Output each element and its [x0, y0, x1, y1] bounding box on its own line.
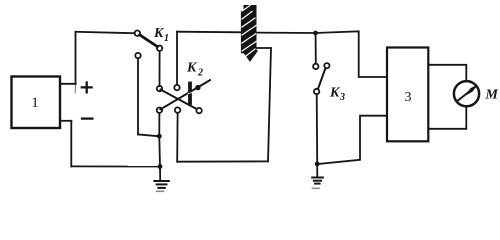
minus terminal stub wire [60, 120, 71, 122]
wire J3 to corner, down and into box 3 [316, 31, 388, 77]
wire minus to ground junction [71, 165, 158, 167]
ground 2 stub [316, 164, 318, 177]
K1 blade [140, 35, 158, 47]
box 3 [387, 48, 428, 142]
wire loop right side [268, 48, 271, 161]
wire box3 to meter top [428, 65, 466, 81]
wire K2 bottom-middle down [176, 113, 178, 162]
wire K2 top-middle up to loop corner [176, 32, 178, 85]
plus terminal vertical wire [75, 32, 77, 84]
wire J1 down to J2 [158, 136, 161, 166]
K3 bottom contact [314, 89, 319, 94]
component 2: hatched electrode bar [242, 5, 257, 61]
switch K1 [135, 31, 163, 59]
svg-text:1: 1 [164, 33, 169, 44]
wire loop top side [177, 31, 243, 34]
wire K1 right contact down to K2 [159, 51, 161, 86]
meter M [454, 81, 479, 106]
wire K2 bottom-left down to J1 [158, 113, 160, 134]
K1 left contact [135, 31, 140, 36]
wire K3 down to J4 [316, 94, 319, 162]
svg-text:M: M [485, 88, 499, 103]
K1 right contact [157, 46, 162, 51]
junction J2 [158, 164, 163, 169]
K2 link bar notches [188, 92, 192, 95]
junction J3 [313, 31, 318, 36]
K3 blade [318, 68, 326, 89]
minus terminal vertical wire [70, 121, 72, 167]
wire K1 lower throw down [137, 58, 139, 134]
junction J4 [315, 162, 320, 167]
K2 contact top-left [157, 86, 162, 91]
K2 blade A [161, 80, 211, 109]
svg-text:K: K [186, 61, 198, 76]
K2 link bar [188, 84, 192, 104]
wire to junction J1 [138, 134, 157, 136]
K2 blade B [161, 90, 197, 109]
wire bar to junction J3 [257, 32, 316, 34]
K2 contact top-middle [174, 85, 179, 90]
ground 2 [312, 178, 323, 189]
wire J3 down to K3 [315, 35, 317, 64]
plus terminal stub wire [60, 83, 76, 85]
ground 1 [154, 181, 168, 191]
K2 contact top-right (filled) [195, 85, 200, 90]
switch K3 [313, 35, 329, 162]
minus sign [82, 117, 92, 119]
plus sign [82, 83, 92, 93]
wire loop to bar right edge [255, 47, 271, 49]
K2 contact bottom-left [157, 108, 162, 113]
K3 top contact [313, 64, 318, 69]
meter needle arrowhead [466, 86, 476, 95]
svg-text:1: 1 [31, 95, 39, 111]
svg-text:2: 2 [197, 68, 203, 79]
wire meter bottom to box3 [428, 107, 466, 129]
wire J4 right, up into box 3 [319, 116, 387, 164]
wire overshoot tail [74, 84, 76, 93]
wire top left (plus to K1) [76, 32, 135, 33]
K1 lower throw contact [135, 53, 140, 58]
K2 contact bottom-middle [175, 107, 180, 112]
K3 blade tip circle [324, 63, 329, 68]
K2 contact bottom-right [196, 108, 201, 113]
wire loop bottom side [177, 160, 268, 162]
meter body [454, 81, 479, 106]
junction J1 [157, 134, 162, 139]
ground 1 stub [159, 167, 161, 180]
svg-text:3: 3 [405, 90, 412, 105]
svg-text:3: 3 [339, 92, 345, 103]
box 1 (power source) [12, 77, 61, 129]
switch K2 (reversing switch) [157, 80, 210, 113]
meter needle [457, 87, 475, 101]
